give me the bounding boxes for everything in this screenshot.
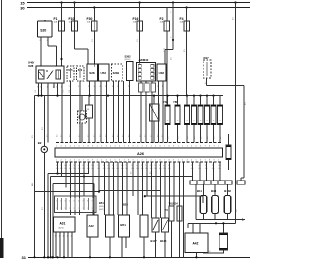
- svg-text:0.5: 0.5: [60, 168, 63, 170]
- svg-text:a: a: [87, 208, 88, 210]
- svg-text:2: 2: [182, 160, 183, 162]
- svg-text:8: 8: [88, 160, 89, 162]
- svg-text:a: a: [74, 208, 75, 210]
- svg-text:9: 9: [92, 201, 93, 203]
- svg-text:0.5: 0.5: [212, 168, 215, 170]
- svg-text:S262: S262: [125, 55, 132, 59]
- svg-text:4: 4: [110, 160, 111, 162]
- svg-text:(S20/5): (S20/5): [125, 59, 131, 61]
- svg-text:A26: A26: [137, 152, 144, 156]
- svg-text:x2: x2: [107, 165, 109, 167]
- svg-text:0.5: 0.5: [198, 168, 201, 170]
- svg-text:30: 30: [82, 165, 84, 167]
- svg-text:58: 58: [125, 165, 127, 167]
- svg-text:4: 4: [191, 160, 192, 162]
- svg-text:8: 8: [128, 146, 129, 148]
- svg-text:0.5: 0.5: [214, 137, 216, 140]
- svg-text:F1: F1: [54, 17, 58, 21]
- svg-text:7: 7: [124, 160, 125, 162]
- svg-text:2: 2: [60, 201, 61, 203]
- svg-text:B51: B51: [120, 223, 126, 227]
- svg-text:2: 2: [67, 236, 68, 238]
- svg-text:0.5: 0.5: [57, 135, 59, 138]
- svg-text:0.5: 0.5: [113, 135, 115, 138]
- svg-text:U32: U32: [159, 71, 165, 75]
- svg-text:B148: B148: [160, 239, 167, 243]
- svg-text:0.5: 0.5: [145, 135, 147, 138]
- svg-text:0.5: 0.5: [73, 168, 76, 170]
- svg-text:8: 8: [209, 146, 210, 148]
- svg-text:1: 1: [47, 40, 48, 42]
- svg-text:1: 1: [137, 160, 138, 162]
- svg-text:x2: x2: [78, 165, 80, 167]
- svg-text:0.5: 0.5: [168, 168, 171, 170]
- svg-text:1: 1: [137, 146, 138, 148]
- svg-text:7: 7: [164, 146, 165, 148]
- svg-text:9: 9: [214, 160, 215, 162]
- svg-text:4: 4: [70, 160, 71, 162]
- svg-text:a: a: [60, 208, 61, 210]
- svg-text:B44: B44: [211, 189, 217, 193]
- svg-text:30: 30: [168, 165, 170, 167]
- svg-text:1: 1: [178, 146, 179, 148]
- svg-text:8: 8: [87, 201, 88, 203]
- svg-text:5: 5: [155, 146, 156, 148]
- svg-text:5: 5: [74, 201, 75, 203]
- svg-text:X28: X28: [28, 64, 34, 68]
- svg-text:Y61/X34: Y61/X34: [169, 203, 179, 206]
- svg-text:1: 1: [56, 146, 57, 148]
- svg-text:0.5: 0.5: [103, 168, 106, 170]
- svg-text:0.5: 0.5: [208, 251, 211, 253]
- svg-text:8: 8: [88, 146, 89, 148]
- svg-text:3: 3: [106, 160, 107, 162]
- svg-text:0.5: 0.5: [69, 90, 71, 93]
- svg-text:1: 1: [56, 160, 57, 162]
- svg-text:0.5: 0.5: [141, 168, 144, 170]
- svg-text:┌: ┌: [170, 11, 172, 14]
- svg-text:2: 2: [105, 86, 106, 88]
- svg-text:F2: F2: [160, 17, 164, 21]
- svg-text:0.5: 0.5: [131, 172, 133, 175]
- svg-text:5: 5: [115, 160, 116, 162]
- svg-text:0.5: 0.5: [123, 135, 125, 138]
- svg-text:2: 2: [61, 146, 62, 148]
- svg-text:0.5: 0.5: [154, 168, 157, 170]
- svg-text:x2: x2: [136, 165, 138, 167]
- svg-text:5: 5: [196, 146, 197, 148]
- svg-text:6: 6: [119, 160, 120, 162]
- svg-text:3: 3: [112, 86, 113, 88]
- svg-text:Y3: Y3: [165, 208, 169, 212]
- svg-text:3: 3: [146, 160, 147, 162]
- svg-text:0.5: 0.5: [236, 210, 238, 213]
- svg-text:2: 2: [182, 146, 183, 148]
- svg-text:5: 5: [115, 146, 116, 148]
- svg-text:9: 9: [92, 160, 93, 162]
- svg-text:2: 2: [40, 40, 41, 42]
- svg-text:0.5: 0.5: [62, 172, 64, 175]
- svg-text:15: 15: [60, 165, 62, 167]
- svg-text:9: 9: [173, 160, 174, 162]
- svg-text:58: 58: [154, 165, 156, 167]
- svg-text:a: a: [92, 208, 93, 210]
- svg-text:5: 5: [74, 160, 75, 162]
- svg-text:B11: B11: [197, 189, 202, 193]
- svg-text:B147: B147: [151, 239, 158, 243]
- svg-text:58: 58: [69, 165, 71, 167]
- svg-text:0.5: 0.5: [194, 137, 196, 140]
- svg-text:2: 2: [78, 86, 79, 88]
- svg-text:0.5: 0.5: [150, 165, 153, 167]
- svg-text:2: 2: [142, 160, 143, 162]
- svg-text:15: 15: [145, 165, 147, 167]
- svg-text:0.5: 0.5: [121, 168, 124, 170]
- svg-text:0.5: 0.5: [162, 135, 164, 138]
- svg-text:9: 9: [173, 146, 174, 148]
- svg-text:0.5: 0.5: [88, 135, 90, 138]
- svg-text:S28: S28: [89, 71, 95, 75]
- svg-text:1: 1: [117, 86, 118, 88]
- svg-text:2: 2: [101, 146, 102, 148]
- svg-text:S20: S20: [40, 29, 46, 33]
- svg-text:0.5: 0.5: [150, 172, 152, 175]
- svg-text:0.5: 0.5: [87, 168, 90, 170]
- svg-text:30: 30: [112, 165, 114, 167]
- svg-text:6: 6: [160, 146, 161, 148]
- svg-text:58: 58: [97, 165, 99, 167]
- svg-text:9: 9: [133, 146, 134, 148]
- svg-text:0.5: 0.5: [191, 168, 194, 170]
- svg-text:6: 6: [78, 201, 79, 203]
- svg-text:30: 30: [20, 6, 25, 11]
- svg-text:6: 6: [79, 160, 80, 162]
- svg-text:B23: B23: [123, 203, 128, 207]
- svg-text:7: 7: [124, 146, 125, 148]
- svg-text:31: 31: [191, 165, 193, 167]
- svg-text:1: 1: [97, 160, 98, 162]
- svg-text:3: 3: [65, 146, 66, 148]
- svg-text:6: 6: [200, 146, 201, 148]
- svg-text:30: 30: [205, 165, 207, 167]
- svg-text:8: 8: [128, 160, 129, 162]
- svg-text:30: 30: [141, 165, 143, 167]
- svg-text:0.5: 0.5: [100, 135, 102, 138]
- svg-text:0.5: 0.5: [106, 135, 108, 138]
- svg-text:0.5: 0.5: [41, 90, 43, 93]
- svg-text:a: a: [69, 208, 70, 210]
- svg-text:4: 4: [110, 146, 111, 148]
- svg-text:A42: A42: [193, 242, 199, 246]
- svg-text:0.5: 0.5: [107, 168, 110, 170]
- svg-text:0.5: 0.5: [71, 172, 73, 175]
- svg-text:F4: F4: [180, 17, 184, 21]
- svg-text:0.5: 0.5: [187, 137, 189, 140]
- svg-text:3: 3: [187, 146, 188, 148]
- svg-text:6: 6: [79, 146, 80, 148]
- svg-text:6: 6: [200, 160, 201, 162]
- svg-text:B2: B2: [38, 141, 42, 145]
- svg-text:9: 9: [133, 160, 134, 162]
- svg-text:(B4/7): (B4/7): [99, 209, 104, 211]
- svg-text:4: 4: [191, 146, 192, 148]
- svg-text:5: 5: [196, 160, 197, 162]
- svg-text:1: 1: [97, 146, 98, 148]
- svg-text:2: 2: [53, 87, 54, 89]
- svg-text:0.5: 0.5: [220, 137, 222, 140]
- svg-text:4: 4: [151, 146, 152, 148]
- svg-text:0.5: 0.5: [163, 168, 166, 170]
- svg-text:15: 15: [116, 165, 118, 167]
- svg-text:0.5: 0.5: [201, 137, 203, 140]
- svg-text:9: 9: [214, 146, 215, 148]
- svg-text:0.5: 0.5: [118, 135, 120, 138]
- svg-text:└: └: [170, 36, 172, 40]
- svg-text:2: 2: [142, 146, 143, 148]
- svg-text:1: 1: [162, 86, 163, 88]
- svg-text:7: 7: [164, 160, 165, 162]
- svg-text:8: 8: [169, 146, 170, 148]
- svg-text:S24B: S24B: [113, 71, 120, 75]
- svg-text:0.5: 0.5: [159, 168, 162, 170]
- svg-text:A32: A32: [89, 224, 95, 228]
- svg-text:31: 31: [205, 83, 207, 85]
- svg-text:0.5: 0.5: [150, 168, 153, 170]
- svg-text:0.5: 0.5: [207, 137, 209, 140]
- svg-text:3: 3: [106, 146, 107, 148]
- svg-text:0.5: 0.5: [64, 168, 67, 170]
- svg-text:3: 3: [187, 160, 188, 162]
- svg-text:4: 4: [100, 86, 101, 88]
- svg-text:0.5: 0.5: [97, 168, 100, 170]
- svg-text:a: a: [56, 208, 57, 210]
- svg-text:5: 5: [155, 160, 156, 162]
- svg-text:2: 2: [88, 86, 89, 88]
- svg-text:30: 30: [56, 165, 58, 167]
- svg-text:0.5: 0.5: [94, 135, 96, 138]
- svg-text:F16: F16: [133, 17, 139, 21]
- svg-text:2: 2: [55, 236, 56, 238]
- svg-text:0.5: 0.5: [218, 168, 221, 170]
- svg-text:8: 8: [209, 160, 210, 162]
- svg-text:7: 7: [83, 146, 84, 148]
- svg-text:4: 4: [151, 160, 152, 162]
- svg-text:0.5: 0.5: [63, 90, 65, 93]
- svg-text:2: 2: [128, 86, 129, 88]
- svg-text:4: 4: [69, 201, 70, 203]
- svg-text:(B4/6): (B4/6): [99, 206, 104, 208]
- svg-text:31: 31: [159, 165, 161, 167]
- svg-text:a: a: [83, 208, 84, 210]
- svg-text:0.5: 0.5: [61, 135, 63, 138]
- svg-text:1: 1: [178, 160, 179, 162]
- svg-text:7: 7: [205, 160, 206, 162]
- svg-text:0.5: 0.5: [91, 165, 94, 167]
- svg-text:0.5: 0.5: [70, 135, 72, 138]
- svg-text:8: 8: [169, 160, 170, 162]
- svg-text:2: 2: [59, 236, 60, 238]
- svg-text:0.5: 0.5: [168, 137, 170, 140]
- svg-text:2: 2: [101, 160, 102, 162]
- svg-text:0.5: 0.5: [112, 168, 115, 170]
- svg-text:31: 31: [103, 165, 105, 167]
- svg-text:0.5: 0.5: [64, 165, 67, 167]
- svg-text:0.5: 0.5: [121, 165, 124, 167]
- svg-text:K97: K97: [204, 56, 210, 60]
- svg-text:x2: x2: [163, 165, 165, 167]
- svg-text:6: 6: [119, 146, 120, 148]
- svg-text:F10: F10: [69, 17, 75, 21]
- svg-text:0.5: 0.5: [129, 135, 131, 138]
- svg-text:9: 9: [92, 146, 93, 148]
- svg-text:0.5: 0.5: [82, 168, 85, 170]
- svg-text:0.5: 0.5: [79, 135, 81, 138]
- svg-text:6: 6: [160, 160, 161, 162]
- svg-text:5: 5: [74, 146, 75, 148]
- svg-text:F30: F30: [87, 17, 93, 21]
- svg-text:0.5: 0.5: [205, 168, 208, 170]
- svg-text:1: 1: [56, 201, 57, 203]
- svg-text:7: 7: [83, 160, 84, 162]
- svg-text:7: 7: [83, 201, 84, 203]
- svg-text:0.5: 0.5: [78, 168, 81, 170]
- svg-text:31: 31: [22, 255, 27, 260]
- svg-text:A31: A31: [60, 222, 66, 226]
- svg-text:0.5: 0.5: [47, 135, 49, 138]
- svg-text:0.5: 0.5: [145, 168, 148, 170]
- svg-text:0.5: 0.5: [218, 165, 221, 167]
- svg-text:4: 4: [70, 146, 71, 148]
- svg-text:3: 3: [157, 86, 158, 88]
- svg-text:0.5: 0.5: [116, 168, 119, 170]
- svg-text:7: 7: [205, 146, 206, 148]
- svg-text:0.5: 0.5: [35, 90, 37, 93]
- svg-text:B51: B51: [99, 201, 104, 205]
- svg-text:2: 2: [61, 160, 62, 162]
- svg-text:2: 2: [69, 86, 70, 88]
- svg-text:A8/M42: A8/M42: [139, 58, 149, 62]
- svg-text:3: 3: [65, 160, 66, 162]
- svg-text:0.5: 0.5: [136, 168, 139, 170]
- svg-text:(A7/3): (A7/3): [59, 227, 65, 230]
- svg-text:1: 1: [218, 146, 219, 148]
- svg-text:0.5: 0.5: [131, 168, 134, 170]
- svg-text:0.5: 0.5: [56, 168, 59, 170]
- svg-text:0.5: 0.5: [69, 168, 72, 170]
- svg-text:31: 31: [73, 165, 75, 167]
- svg-text:15: 15: [212, 165, 214, 167]
- svg-text:0.5: 0.5: [178, 137, 180, 140]
- svg-text:U52: U52: [101, 71, 107, 75]
- svg-text:0.5: 0.5: [91, 168, 94, 170]
- svg-text:a: a: [78, 208, 79, 210]
- svg-text:2: 2: [71, 236, 72, 238]
- svg-text:1: 1: [94, 86, 95, 88]
- svg-text:3: 3: [146, 146, 147, 148]
- svg-text:3: 3: [65, 201, 66, 203]
- svg-text:1: 1: [218, 160, 219, 162]
- svg-text:x2: x2: [198, 165, 200, 167]
- svg-text:0.5: 0.5: [151, 135, 153, 138]
- svg-text:a: a: [65, 208, 66, 210]
- svg-text:0.5: 0.5: [140, 135, 142, 138]
- svg-text:15: 15: [87, 165, 89, 167]
- svg-text:31: 31: [131, 165, 133, 167]
- svg-text:0.5: 0.5: [125, 168, 128, 170]
- svg-text:0.5: 0.5: [158, 135, 160, 138]
- svg-text:2: 2: [63, 236, 64, 238]
